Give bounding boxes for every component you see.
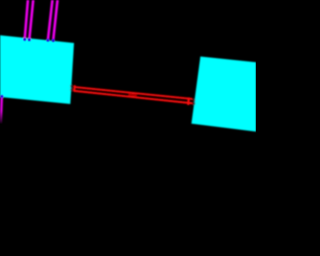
wire M1 (magenta edge pair1-left into node A top) xyxy=(25,0,28,39)
node pin dot P3 xyxy=(46,39,49,42)
node pin dot P5 xyxy=(0,95,3,98)
wire R1 (red edge upper rail A->B) xyxy=(74,87,193,99)
node pin dot P4 xyxy=(52,39,55,42)
wire M4 (magenta edge pair2-right into node A top) xyxy=(53,0,57,40)
dark arrowhead stub left-upper xyxy=(70,85,72,87)
mid marker on red edge xyxy=(128,94,137,97)
dark arrowhead stub left-lower xyxy=(70,89,72,91)
node A (left cyan rectangle) xyxy=(0,35,74,104)
node pin dot P2 xyxy=(28,38,31,41)
tee cap left xyxy=(73,85,76,91)
tee cap right xyxy=(187,97,190,105)
wire M2 (magenta edge pair1-right into node A top) xyxy=(29,0,33,40)
wire R2 (red edge lower rail A->B) xyxy=(74,91,193,104)
graph diagram: two cyan nodes linked by red double edge, magenta edges at top xyxy=(0,0,256,256)
node B (right cyan rectangle) xyxy=(191,57,256,132)
node pin dot P1 xyxy=(23,38,26,41)
dark arrowhead stub right-upper xyxy=(193,99,196,101)
dark arrowhead stub right-lower xyxy=(193,102,196,104)
wire M3 (magenta edge pair2-left into node A top) xyxy=(48,0,53,40)
wire M5 (magenta stub below node A, fading) xyxy=(0,96,3,123)
